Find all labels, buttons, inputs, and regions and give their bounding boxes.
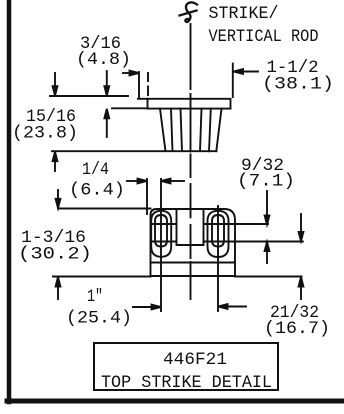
bottom right ext line bbox=[235, 276, 302, 278]
21/32 arrow down bbox=[300, 214, 302, 232]
1-3/16 bottom ref ext line bbox=[53, 276, 151, 278]
1-3/16 top ref ext line bbox=[58, 208, 151, 210]
centerline symbol CL bbox=[180, 2, 198, 22]
upper ledge line left bbox=[151, 223, 177, 225]
svg-text:(38.1): (38.1) bbox=[262, 76, 334, 95]
9/32 arrow down bbox=[266, 191, 268, 216]
dim 3/16 bottom ref line (flange bottom ext) bbox=[112, 107, 148, 109]
21/32 arrow up bbox=[300, 287, 302, 299]
arrow up at x55 (15/16 bottom) bbox=[54, 162, 56, 171]
leader (4.8) to flange top: arrow right + ext line bbox=[123, 72, 130, 74]
border bottom bar bbox=[7, 399, 344, 404]
leader 1-1/2: ext line + arrow left bbox=[232, 64, 234, 98]
lower ledge line + right ext bbox=[151, 241, 177, 243]
9/32 arrow up bbox=[266, 251, 268, 263]
arrow down at x55 (15/16 top) bbox=[54, 73, 56, 87]
dashed ext above flange corner bbox=[147, 73, 149, 95]
slot left bbox=[155, 215, 167, 247]
dim 3/16 top ref line (flange top ext) bbox=[50, 95, 128, 97]
trapezoid inner taper lines bbox=[171, 109, 211, 152]
trapezoid bottom + 15/16 lower extension line bbox=[52, 150, 217, 152]
svg-text:(25.4): (25.4) bbox=[66, 310, 132, 329]
boss right bbox=[208, 211, 229, 257]
border left bar bbox=[7, 0, 12, 402]
svg-text:(30.2): (30.2) bbox=[18, 246, 92, 265]
1 inch arrow right bbox=[133, 306, 152, 308]
dim 1/4 leader arrow right (from (6.4)) bbox=[127, 180, 138, 182]
svg-text:1/4: 1/4 bbox=[82, 161, 109, 180]
flange of strike bbox=[148, 99, 231, 109]
slot center extension lines bbox=[160, 179, 162, 311]
dim 1/4 arrow left at slot center line bbox=[171, 180, 185, 182]
bracket outline bbox=[151, 209, 236, 276]
svg-text:STRIKE/: STRIKE/ bbox=[209, 5, 279, 24]
arrow up at x106.8 (3/16 bottom) bbox=[106, 119, 108, 137]
svg-text:446F21: 446F21 bbox=[163, 351, 227, 370]
upper ledge line right + 9/32 ext bbox=[204, 223, 269, 225]
svg-text:(6.4): (6.4) bbox=[69, 182, 125, 201]
channel bottom bbox=[177, 244, 204, 246]
svg-text:(16.7): (16.7) bbox=[264, 320, 330, 339]
svg-text:(4.8): (4.8) bbox=[76, 51, 131, 70]
flange top stub to leader ext bbox=[138, 98, 148, 100]
1-3/16 arrow down bbox=[57, 190, 59, 200]
web vertical left bbox=[176, 209, 178, 245]
web vertical right bbox=[203, 209, 205, 245]
1-3/16 arrow up bbox=[57, 287, 59, 300]
svg-text:(7.1): (7.1) bbox=[237, 173, 295, 192]
dim 1/4 ext line A bbox=[146, 179, 148, 214]
title box bbox=[94, 343, 278, 390]
slot right bbox=[212, 215, 224, 247]
svg-text:1": 1" bbox=[87, 288, 103, 307]
arrow down at x106.8 (3/16 top) bbox=[106, 71, 108, 87]
svg-text:VERTICAL ROD: VERTICAL ROD bbox=[209, 28, 319, 47]
boss left bbox=[151, 211, 171, 257]
svg-text:(23.8): (23.8) bbox=[12, 125, 78, 144]
centerline (vertical) bbox=[190, 24, 192, 299]
svg-text:TOP STRIKE DETAIL: TOP STRIKE DETAIL bbox=[101, 374, 272, 393]
1 inch arrow left bbox=[228, 306, 247, 308]
trapezoid body of strike bbox=[160, 109, 222, 152]
bracket step line bbox=[151, 262, 236, 264]
